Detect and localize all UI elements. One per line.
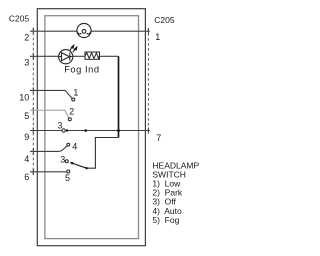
contact 1 — [72, 98, 75, 101]
wire pin 4 row — [30, 146, 67, 152]
contact 3 upper — [62, 129, 65, 132]
svg-text:3: 3 — [24, 57, 29, 67]
connector C205 dashed line right — [147, 28, 149, 134]
pin 3 tick — [32, 53, 34, 59]
svg-text:1: 1 — [73, 88, 78, 98]
LED U1 Fog Ind — [59, 50, 73, 64]
svg-text:7: 7 — [156, 133, 161, 143]
contact 5 — [67, 170, 70, 173]
pin 4 tick — [32, 148, 34, 154]
wire pin 3 to LED — [30, 55, 59, 57]
svg-text:C205: C205 — [9, 13, 30, 23]
wire vertical resistor drop — [118, 56, 120, 137]
pin 10 tick — [32, 87, 34, 93]
wiper tip dot upper — [66, 129, 68, 131]
pin 9 tick — [32, 128, 34, 134]
contact 2 — [68, 118, 71, 121]
svg-text:2: 2 — [24, 32, 29, 42]
wire lamp to pin 1 — [91, 30, 150, 32]
wire pin 9 row — [30, 130, 62, 132]
junction dot — [117, 129, 120, 132]
wiper pivot dot lower — [85, 167, 87, 169]
contact 3 lower — [65, 160, 68, 163]
wire step horizontal — [87, 138, 119, 169]
svg-text:3: 3 — [57, 120, 62, 130]
wire resistor to corner — [100, 55, 119, 57]
svg-text:5: 5 — [24, 111, 29, 121]
inner switch box — [45, 16, 139, 239]
wiper arm lower — [73, 163, 87, 168]
wire pin 6 row — [30, 171, 67, 173]
LED arrow 1 — [70, 45, 74, 50]
headlamp switch legend — [152, 160, 199, 225]
wire pin 5 row — [30, 110, 69, 118]
svg-text:10: 10 — [19, 93, 29, 103]
svg-text:6: 6 — [24, 172, 29, 182]
wiper pivot dot upper — [84, 129, 87, 132]
contact 4 — [67, 143, 70, 146]
wire LED to resistor — [73, 55, 85, 57]
pin 6 tick — [32, 169, 34, 175]
pin 5 tick — [32, 107, 34, 113]
svg-text:5) Fog: 5) Fog — [152, 215, 179, 225]
svg-text:5: 5 — [65, 173, 70, 183]
svg-text:Fog Ind: Fog Ind — [64, 64, 99, 74]
svg-text:9: 9 — [24, 132, 29, 142]
lamp — [77, 23, 91, 37]
wiper arrowhead lower — [70, 162, 74, 165]
svg-text:4: 4 — [24, 154, 29, 164]
pin 1 tick — [147, 28, 149, 34]
wire pin 2 to lamp — [30, 30, 77, 32]
svg-text:1: 1 — [155, 32, 160, 42]
outer switch box — [37, 9, 145, 246]
LED arrow 2 — [73, 47, 77, 52]
wire pin 10 row — [30, 90, 72, 98]
svg-text:4: 4 — [72, 141, 77, 151]
svg-text:3: 3 — [60, 154, 65, 164]
wiper wire to pin 7 — [66, 130, 150, 132]
connector C205 dashed line left — [32, 28, 34, 175]
pin 2 tick — [32, 28, 34, 34]
svg-text:C205: C205 — [154, 15, 175, 25]
pin 7 tick — [147, 127, 149, 133]
svg-text:2: 2 — [69, 107, 74, 117]
resistor R1 — [85, 52, 100, 59]
